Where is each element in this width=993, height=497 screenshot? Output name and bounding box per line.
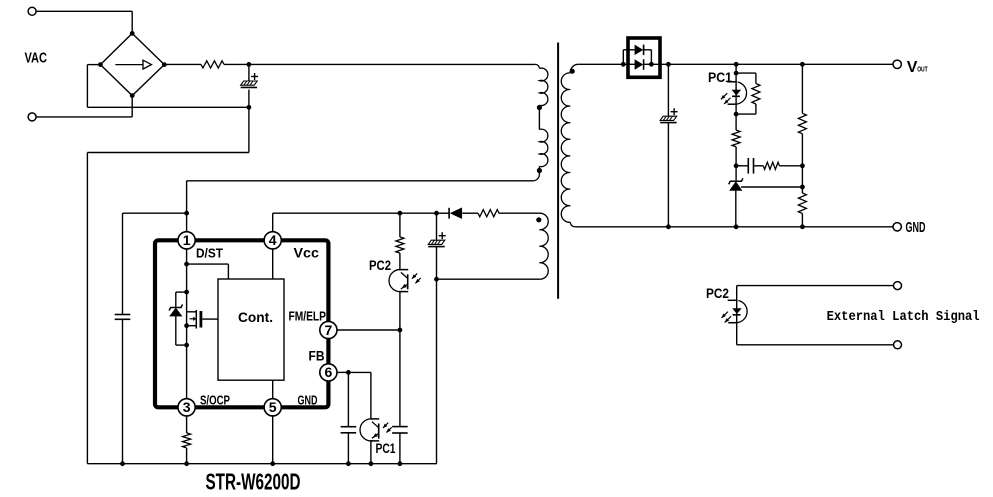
bridge rectifier BR1 [98,31,167,98]
wire to bulk cap node [224,62,251,67]
IC U1 outline [155,240,328,407]
capacitor C2 output electrolytic [660,64,677,229]
label FB [309,349,325,364]
svg-text:VAC: VAC [25,51,48,67]
wire primary GND rail [87,463,436,465]
svg-text:FB: FB [309,349,325,364]
resistor R8 divider upper [798,64,806,166]
svg-text:FM/ELP: FM/ELP [289,309,327,324]
label D/ST [196,246,223,261]
wire PC1 emitter [369,441,374,466]
svg-text:External Latch Signal: External Latch Signal [827,310,980,325]
svg-text:PC1: PC1 [376,441,396,456]
capacitor C4 clamp [115,315,131,467]
transformer T1 aux winding [539,213,548,279]
label PC2 secondary [706,286,729,301]
svg-text:Vcc: Vcc [294,246,320,261]
wire pin1 internal [186,249,188,399]
label Vcc [294,246,320,261]
wire FB line [337,370,371,419]
label S/OCP [200,393,230,408]
label VOUT [907,59,928,76]
zener Z1 internal [169,290,189,348]
capacitor C3 Vcc electrolytic [428,213,445,279]
wire D/ST line [187,181,533,232]
svg-text:S/OCP: S/OCP [200,393,230,408]
label GND pin [298,393,318,408]
transformer core [557,43,559,299]
transformer polarity dot primary upper [537,105,542,110]
wire bridge negative return [87,65,249,108]
capacitor C1 bulk electrolytic [241,64,258,109]
transistor Q1 MOSFET internal [184,310,218,329]
terminal latch top [894,282,902,290]
pin 1 D/ST [178,232,195,249]
wire pin4 internal [272,249,274,279]
transformer T1 secondary top corner [570,64,578,72]
svg-text:Cont.: Cont. [238,309,273,325]
wire secondary output rail [578,62,625,67]
node drain sense [184,262,228,279]
label PC2 primary [369,258,391,273]
capacitor C7 FM/ELP [392,330,408,466]
transformer T1 primary winding upper [539,68,547,105]
svg-text:7: 7 [325,322,333,338]
label STR-W6200D [206,469,301,495]
svg-text:D/ST: D/ST [196,246,223,261]
label External Latch Signal [827,310,980,325]
svg-text:PC2: PC2 [369,258,391,273]
svg-text:PC1: PC1 [708,70,732,85]
svg-text:4: 4 [269,232,277,248]
svg-text:OUT: OUT [917,65,928,74]
optocoupler PC1 phototransistor [360,419,392,441]
resistor R1 inrush [201,61,224,68]
transformer polarity dot secondary [570,69,575,74]
optocoupler PC2 LED [722,286,748,345]
terminal latch bottom [894,341,902,349]
svg-text:GND: GND [906,219,926,236]
diode D2 aux rectifier [449,208,462,219]
wire bridge output [164,63,201,65]
transformer polarity dot aux [536,217,541,222]
label PC1 primary [376,441,396,456]
resistor R4 PC2 collector [396,213,404,269]
resistor R5 parallel PC1 [736,73,760,114]
wire pin5 to gnd [270,416,275,466]
wire divider mid [801,166,803,187]
resistor R6 series PC1 [732,114,740,168]
wire aux bottom [434,277,539,282]
resistor R2 aux [478,210,499,217]
wire secondary GND rail [575,224,893,229]
transformer T1 primary winding lower [539,129,547,166]
pin 3 S/OCP [178,399,195,416]
terminal GND [893,223,901,231]
label GND [906,219,926,236]
resistor R3 current sense [183,416,191,466]
wire aux gnd [436,279,438,464]
controller block Cont. [218,279,284,380]
wire PC2 emitter [398,292,403,333]
capacitor C6 FB [341,372,357,466]
wire D/ST node [123,211,190,315]
svg-text:STR-W6200D: STR-W6200D [206,469,301,495]
transformer T1 secondary winding [561,73,570,222]
label PC1 secondary [708,70,732,85]
svg-text:3: 3 [183,399,191,415]
capacitor C5 feedback [736,158,763,174]
wire primary GND route [87,107,249,463]
wire Cont to pin5 [272,380,274,399]
wire DC+ rail to transformer [249,63,536,65]
terminal VAC bottom [28,97,132,121]
wire shunt ref [741,185,805,190]
label FM/ELP [289,309,327,324]
wire secondary bottom corner [570,222,575,227]
svg-text:1: 1 [183,232,191,248]
pin 6 FB [320,364,337,381]
wire primary bottom corner [533,166,539,181]
wire PC1 anode [734,64,739,75]
svg-text:5: 5 [269,399,277,415]
svg-text:V: V [907,59,918,76]
pin 5 GND [264,399,281,416]
pin 4 Vcc [264,232,281,249]
transformer polarity dot primary lower [537,168,542,173]
wire Vcc line [273,211,449,232]
pin 7 FM/ELP [320,321,337,338]
resistor R7 feedback [763,162,805,169]
svg-text:PC2: PC2 [706,286,729,301]
svg-text:GND: GND [298,393,318,408]
wire rail after diode [651,62,893,67]
transformer T1 primary top corner [535,64,539,68]
zener shunt regulator U2 [729,166,743,227]
wire diode to resistor [462,212,478,214]
wire latch top [737,285,894,287]
terminal VAC top [28,7,132,32]
svg-text:6: 6 [325,364,333,380]
rectifier diode module D1 [623,38,660,77]
resistor R9 divider lower [798,187,806,227]
wire resistor to aux winding [499,212,539,214]
label VAC [25,51,48,67]
optocoupler PC1 LED [721,73,747,116]
wire latch bottom [737,344,894,346]
wire FM/ELP line [337,329,400,331]
terminal VOUT [893,60,901,68]
optocoupler PC2 phototransistor [389,270,421,292]
wire primary winding jog [538,105,540,129]
